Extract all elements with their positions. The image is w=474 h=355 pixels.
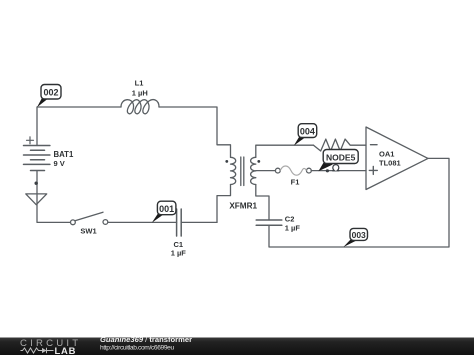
svg-text:002: 002 xyxy=(43,88,58,98)
svg-text:1 µH: 1 µH xyxy=(132,88,148,97)
svg-text:F1: F1 xyxy=(291,178,300,187)
svg-text:003: 003 xyxy=(352,230,366,240)
svg-text:TL081: TL081 xyxy=(379,159,401,168)
svg-text:L1: L1 xyxy=(135,79,144,88)
svg-text:1 µF: 1 µF xyxy=(285,223,301,232)
svg-text:SW1: SW1 xyxy=(80,227,96,236)
svg-text:C2: C2 xyxy=(285,215,295,224)
svg-text:http://circuitlab.com/c6699eu: http://circuitlab.com/c6699eu xyxy=(100,345,174,352)
svg-text:004: 004 xyxy=(300,126,315,136)
svg-text:9 V: 9 V xyxy=(54,159,65,168)
svg-text:Guanine369 / transformer: Guanine369 / transformer xyxy=(100,335,192,344)
svg-text:1 µF: 1 µF xyxy=(171,248,187,257)
svg-text:OA1: OA1 xyxy=(379,149,394,158)
svg-text:001: 001 xyxy=(159,204,174,214)
svg-text:LAB: LAB xyxy=(55,345,77,355)
svg-text:XFMR1: XFMR1 xyxy=(229,201,257,210)
svg-text:NODE5: NODE5 xyxy=(326,152,356,162)
svg-text:BAT1: BAT1 xyxy=(54,150,74,159)
